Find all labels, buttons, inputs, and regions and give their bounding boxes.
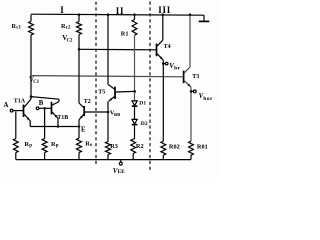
junction Rc2 top rail [78, 13, 81, 16]
label Rc2 [61, 23, 71, 31]
resistor R2 [131, 139, 136, 160]
junction node E / T2 emitter [78, 125, 81, 128]
resistor Rp (input A bias) [13, 112, 18, 160]
wire T4 emitter down to R02 [162, 60, 164, 141]
transistor T1A [24, 99, 32, 121]
svg-text:T4: T4 [164, 44, 171, 50]
svg-text:E: E [81, 126, 86, 133]
junction R1/D1 node to T5 base [134, 90, 137, 93]
svg-text:A: A [4, 102, 9, 109]
resistor Rc2 [77, 15, 82, 35]
svg-text:II: II [116, 6, 124, 16]
wire T1A emitter to node E [29, 121, 31, 127]
section boundary dashed line 1 [95, 2, 97, 165]
resistor R3 [106, 142, 111, 160]
junction Vc2 node to T4 base wire [78, 48, 81, 51]
svg-text:br: br [174, 66, 180, 72]
wire T5 collector to top rail [107, 15, 109, 85]
section boundary dashed line 2 [149, 2, 151, 172]
label VBB [110, 109, 120, 117]
input terminal A [4, 102, 13, 112]
wire node E horizontal [30, 126, 79, 128]
bottom negative supply rail wire [16, 159, 191, 161]
label Vbr [169, 62, 180, 72]
wire Vc1 to T3 base (long horizontal) [31, 76, 184, 77]
svg-text:hor: hor [203, 96, 213, 102]
svg-text:BB: BB [114, 112, 120, 117]
wire T5 base to diode node [115, 90, 135, 93]
wire T2 base to node VBB [84, 111, 108, 113]
wire T3 emitter down to R01 [190, 87, 192, 141]
label Rc1 [12, 23, 22, 31]
node Vc1 label [29, 76, 40, 86]
wire T1A collector to T1B collector tie [31, 97, 59, 100]
svg-text:EE: EE [118, 169, 126, 175]
node Vc2 label [62, 34, 73, 44]
label Vhor [199, 92, 213, 102]
negative supply terminal VEE [119, 160, 122, 166]
resistor R1 [132, 15, 137, 36]
transistor T2 [79, 103, 84, 119]
svg-text:I: I [60, 5, 64, 15]
wire Rc2 bottom to T2 collector [78, 35, 80, 104]
junction T3 collector rail [189, 13, 192, 16]
wire input A to T1A base [13, 110, 24, 112]
top positive supply rail wire [31, 14, 204, 15]
resistor Rc1 [29, 15, 34, 35]
svg-text:T3: T3 [192, 74, 199, 80]
wire T4 collector to top rail [162, 15, 164, 41]
svg-text:T5: T5 [98, 89, 105, 95]
junction T5 collector rail [107, 13, 110, 16]
output terminal Vhor [191, 90, 196, 93]
wire T1B emitter to node E [57, 118, 59, 126]
positive supply terminal [199, 15, 210, 21]
wire T3 collector to top rail [189, 15, 191, 67]
svg-text:p: p [29, 144, 32, 149]
resistor R02 [161, 141, 166, 159]
transistor T1B [52, 102, 60, 119]
wire D2 to R2 [134, 125, 136, 139]
svg-text:c2: c2 [66, 26, 71, 31]
svg-text:C1: C1 [33, 80, 39, 85]
wire R1 bottom to diode D1 [134, 35, 136, 101]
svg-text:C2: C2 [67, 39, 73, 44]
label Re [85, 140, 93, 148]
wire T2 emitter to node E and Re [78, 119, 80, 138]
svg-text:B: B [39, 100, 44, 107]
input terminal B [36, 100, 43, 110]
svg-text:R02: R02 [169, 143, 180, 150]
diode D2 [132, 119, 138, 124]
svg-text:R3: R3 [110, 143, 118, 150]
resistor Rp (input B bias) [42, 108, 47, 159]
svg-text:III: III [158, 5, 171, 15]
junction T1A collector node [30, 95, 33, 98]
wire Vc2 node to T4 base [79, 48, 157, 51]
svg-text:T1A: T1A [14, 98, 26, 104]
svg-text:c1: c1 [16, 26, 21, 31]
junction Vhor tap [190, 90, 193, 93]
svg-text:R2: R2 [136, 143, 144, 150]
junction Vbr tap [162, 62, 165, 65]
label VEE [113, 167, 125, 175]
resistor R01 [189, 141, 194, 159]
junction T1B emitter at node E [57, 125, 60, 128]
junction T4 collector rail [162, 13, 165, 16]
transistor T3 [184, 67, 191, 87]
svg-text:T2: T2 [84, 99, 91, 105]
transistor T5 [108, 84, 115, 101]
svg-text:R01: R01 [197, 143, 208, 150]
svg-text:D1: D1 [139, 101, 146, 107]
junction node VBB [107, 111, 110, 114]
output terminal Vbr [163, 62, 168, 65]
diode D1 [132, 101, 138, 106]
svg-text:R1: R1 [121, 31, 129, 38]
wire D1 to D2 [134, 107, 136, 120]
resistor Re [77, 138, 82, 159]
svg-text:p: p [56, 144, 59, 149]
transistor T4 [157, 40, 164, 60]
wire T5 emitter to VBB node and R3 [107, 101, 109, 141]
label Rp [25, 141, 33, 149]
junction R1 top rail [133, 13, 136, 16]
svg-text:D2: D2 [141, 121, 148, 127]
wire input B to T1B base [39, 107, 52, 109]
junction B base / Rp2 [43, 107, 46, 110]
wire Rc1 bottom to T1A collector (node Vc1 column) [30, 35, 32, 99]
label Rp2 [51, 141, 59, 149]
svg-text:T1B: T1B [57, 115, 68, 121]
wire T1B collector riser [58, 99, 60, 101]
